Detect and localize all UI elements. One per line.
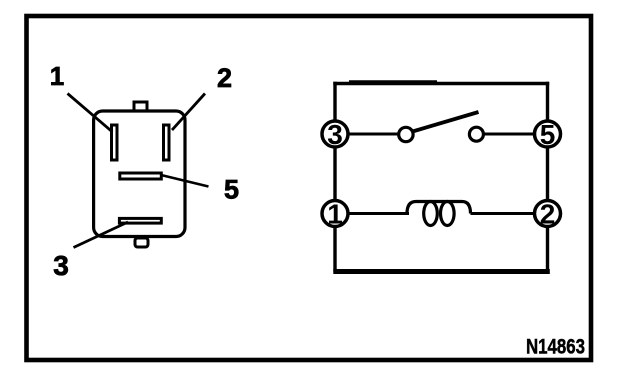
svg-text:5: 5 xyxy=(540,119,556,150)
svg-text:5: 5 xyxy=(224,175,239,205)
svg-text:N14863: N14863 xyxy=(526,336,585,359)
svg-text:3: 3 xyxy=(327,119,343,150)
svg-text:3: 3 xyxy=(53,250,69,281)
svg-text:1: 1 xyxy=(50,61,64,91)
svg-text:2: 2 xyxy=(540,199,556,230)
svg-text:1: 1 xyxy=(327,199,343,230)
svg-text:2: 2 xyxy=(217,63,232,93)
